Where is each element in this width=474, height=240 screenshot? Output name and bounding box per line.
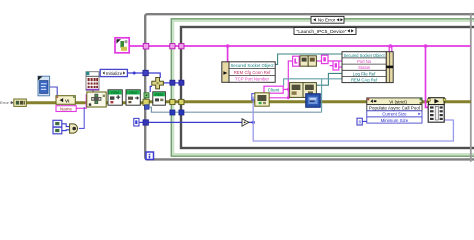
diagram clip edge vertical line	[470, 13, 472, 162]
svg-text:VI (strict): VI (strict)	[389, 100, 407, 105]
wire pink vertical net	[288, 61, 292, 98]
unbundle by name selector column	[386, 52, 393, 83]
wire teal vertical branch to cyan run	[321, 79, 323, 112]
svg-text:VI: VI	[65, 98, 69, 103]
wire cyan run to TCP icon	[149, 107, 322, 112]
svg-text:No Error: No Error	[318, 18, 336, 23]
wire VI class icon to open VI ref	[50, 87, 57, 96]
selector label No Error	[311, 16, 344, 23]
numeric constant 8	[357, 118, 362, 125]
tunnel olive on loop border	[143, 99, 149, 105]
TCP blue icon node	[306, 94, 320, 107]
unbundle by name rows	[342, 52, 386, 83]
start async call node header	[428, 98, 446, 105]
case structure Launch_IPC5_Device (gray border)	[181, 27, 474, 148]
wire teal bundle out to unbundle row1	[275, 54, 342, 64]
cluster row Populate Async Call Pool	[367, 105, 422, 111]
svg-text:Status: Status	[358, 65, 370, 70]
svg-text:Port No: Port No	[357, 59, 372, 64]
tunnel pink on loop border	[143, 43, 149, 49]
bundle by name node selector column	[222, 62, 229, 83]
tunnel blue on green border y112	[170, 110, 175, 115]
tunnel pink on gray border	[179, 44, 184, 49]
label Client	[264, 86, 283, 93]
wire pink node D to vertical net	[269, 97, 288, 99]
wire teal pair2 to Log File Ref row	[317, 73, 343, 85]
boolean constant 2	[53, 127, 62, 134]
tunnel blue on green border y82	[170, 80, 175, 85]
wire pink drop to bundle node	[227, 46, 229, 62]
svg-text:Name: Name	[60, 106, 73, 111]
array bracket glyph	[252, 94, 255, 100]
pink small constant box	[333, 61, 339, 70]
subVI node D	[255, 93, 269, 106]
svg-text:REM: REM	[111, 91, 119, 95]
case structure No Error (green border)	[171, 19, 474, 156]
wire vi refnum (periwinkle) long run	[253, 97, 453, 142]
socket subVI node	[87, 92, 106, 107]
property node pair 1	[300, 56, 316, 66]
wire stub into pink small box	[330, 65, 333, 67]
wire boolean const 2 to gate	[62, 129, 70, 132]
tunnel olive on gray border	[179, 99, 184, 104]
svg-text:REM CAg Ref: REM CAg Ref	[351, 78, 378, 83]
wire pink drop to async call node	[426, 46, 430, 107]
svg-text:TCP Port Number: TCP Port Number	[235, 77, 270, 82]
tunnel blue lower on loop border	[143, 120, 148, 125]
pink class constant icon	[115, 38, 129, 53]
REM subVI node C	[153, 92, 166, 105]
wire error cluster (olive) inside loop	[146, 100, 471, 103]
svg-text:REM: REM	[129, 91, 137, 95]
VI (strict) cluster header	[367, 98, 422, 105]
wire pink Client to vertical net	[283, 88, 288, 90]
pink L constant box	[293, 56, 300, 66]
wire pink pair1 to Port No row	[317, 60, 343, 62]
wire cross node output through tunnels	[163, 82, 184, 84]
wire striped icon purple stub	[92, 90, 94, 93]
REM subVI node B	[126, 90, 140, 105]
svg-text:REM Cfg Conn Ref: REM Cfg Conn Ref	[234, 70, 272, 75]
wire blue constant to tunnel	[139, 121, 144, 123]
open VI reference node	[56, 96, 75, 105]
svg-text:REM: REM	[155, 93, 163, 97]
merge errors cross node	[152, 78, 164, 89]
selector label Launch_IPC5_Device	[294, 28, 356, 35]
bundle by name rows	[229, 62, 275, 83]
tunnel pink on green border	[170, 44, 175, 49]
wire cross node hook to REM node	[150, 86, 152, 92]
svg-text:Client: Client	[268, 88, 280, 93]
svg-text:Log File Ref: Log File Ref	[353, 71, 376, 76]
wire pink small box to Status row	[339, 66, 342, 68]
label Name	[56, 106, 76, 112]
tunnel blue on gray border y82	[179, 80, 184, 85]
tunnel blue enum on loop border	[143, 70, 148, 75]
tunnel cyan on loop border	[145, 105, 149, 109]
svg-text:Populate Async Call Pool: Populate Async Call Pool	[369, 106, 420, 111]
compound gate node	[70, 124, 78, 133]
property node pair 2	[290, 83, 317, 98]
wire 8 constant to Minimum Size row	[362, 120, 367, 122]
wire class (pink) main run	[129, 45, 470, 47]
wire pink drop to unbundle column	[388, 46, 390, 52]
striped constant icon	[86, 72, 99, 91]
enum constant Initialize	[100, 69, 127, 76]
REM subVI node A	[108, 90, 122, 105]
svg-text:Initialize: Initialize	[106, 71, 123, 76]
tunnel blue on gray border y112	[179, 110, 184, 115]
tunnel olive on green border	[170, 99, 175, 104]
label Error In	[0, 100, 13, 105]
boolean constant 1	[53, 120, 62, 127]
blue numeric constant near loop	[134, 118, 139, 126]
conversion triangle node	[242, 119, 249, 126]
svg-text:Current Size: Current Size	[382, 112, 407, 117]
wire enum (blue) to cross node	[127, 73, 160, 78]
wire gate output up to node	[79, 107, 84, 128]
cluster row Minimum Size	[367, 117, 422, 123]
svg-text:Minimum Size: Minimum Size	[381, 118, 409, 123]
wire boolean const 1 to gate	[62, 124, 70, 127]
cluster row Current Size	[367, 111, 422, 117]
wire Name label (pink)	[76, 94, 86, 108]
tunnel teal on loop border y95	[144, 93, 149, 98]
svg-text:Secured Socket Object: Secured Socket Object	[344, 53, 386, 58]
pink small constant box 2	[322, 55, 329, 63]
start async call node grid body	[428, 105, 444, 123]
wire blue lower run to triangle and junction	[146, 121, 253, 123]
while loop border	[145, 14, 474, 159]
VI class cube constant	[38, 76, 50, 96]
svg-text:Secured Socket Object: Secured Socket Object	[231, 63, 275, 68]
iteration terminal i	[146, 152, 154, 160]
wire error cluster (olive) outside loop	[26, 101, 146, 104]
wire teal Client to REM CAg Ref row	[284, 79, 342, 86]
error in cluster constant	[14, 99, 26, 106]
svg-text:"Launch_IPC5_Device": "Launch_IPC5_Device"	[297, 29, 347, 34]
